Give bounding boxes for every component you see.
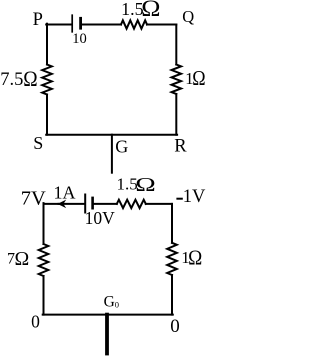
svg-text:Ω: Ω bbox=[141, 0, 160, 22]
svg-text:1V: 1V bbox=[183, 187, 206, 207]
svg-text:7V: 7V bbox=[21, 188, 46, 210]
svg-text:Ω: Ω bbox=[135, 173, 155, 196]
svg-text:Ω: Ω bbox=[23, 68, 37, 91]
galvanometer lead G bbox=[111, 135, 113, 173]
wire right side lower bottom circuit bbox=[171, 275, 173, 315]
svg-text:Ω: Ω bbox=[188, 247, 202, 270]
resistor 1 ohm right vertical bottom circuit bbox=[167, 243, 177, 275]
svg-text:P: P bbox=[33, 10, 43, 30]
battery thick plate (bottom circuit) bbox=[91, 198, 94, 208]
svg-text:7.5: 7.5 bbox=[0, 70, 23, 90]
wire bottom-2 top-left 7V corner bbox=[44, 203, 59, 205]
svg-text:G0: G0 bbox=[104, 293, 119, 310]
wire battery to resistor 1.5ohm bbox=[82, 24, 121, 26]
wire resistor to Q corner bbox=[147, 24, 176, 26]
svg-text:G: G bbox=[115, 137, 128, 157]
wire right side upper bbox=[175, 25, 177, 65]
wire arrow to battery bbox=[59, 203, 85, 205]
battery long plate (top circuit) bbox=[71, 15, 73, 32]
resistor 1.5 ohm bottom horizontal bbox=[117, 200, 146, 208]
battery long plate (bottom circuit) bbox=[84, 195, 86, 213]
svg-text:Ω: Ω bbox=[15, 248, 30, 270]
ground lead G0 thick bbox=[105, 315, 109, 354]
wire left side lower bbox=[46, 95, 48, 135]
wire left side lower bottom circuit bbox=[43, 276, 45, 315]
current arrow 1A head bbox=[58, 201, 65, 208]
wire left side upper bottom circuit bbox=[43, 203, 45, 244]
battery thick plate (top circuit) bbox=[79, 18, 82, 28]
svg-text:10V: 10V bbox=[85, 208, 116, 228]
svg-text:Q: Q bbox=[182, 7, 194, 26]
resistor 7.5 ohm left vertical bbox=[42, 65, 52, 95]
resistor 7 ohm left vertical bottom circuit bbox=[39, 244, 49, 276]
wire bottom 0 to 0 bbox=[43, 314, 173, 316]
wire top-left segment P to battery bbox=[46, 24, 71, 26]
svg-text:0: 0 bbox=[31, 312, 40, 332]
wire right side upper bottom circuit bbox=[171, 204, 173, 243]
node label -1V bbox=[176, 198, 182, 200]
wire right side lower to R bbox=[175, 94, 177, 135]
wire battery to resistor 1.5ohm bottom bbox=[94, 203, 117, 205]
wire left side upper bbox=[46, 24, 48, 65]
wire bottom S to R bbox=[46, 134, 177, 136]
svg-text:R: R bbox=[174, 137, 187, 157]
svg-text:0: 0 bbox=[170, 316, 180, 337]
svg-text:S: S bbox=[33, 133, 43, 153]
svg-text:1A: 1A bbox=[54, 183, 76, 203]
svg-text:10: 10 bbox=[72, 31, 87, 47]
svg-text:Ω: Ω bbox=[192, 67, 205, 91]
wire resistor to -1V corner bbox=[146, 203, 172, 205]
svg-text:1.5: 1.5 bbox=[121, 0, 144, 19]
resistor 1.5 ohm top horizontal bbox=[121, 20, 147, 28]
resistor 1 ohm right vertical bbox=[172, 65, 182, 95]
